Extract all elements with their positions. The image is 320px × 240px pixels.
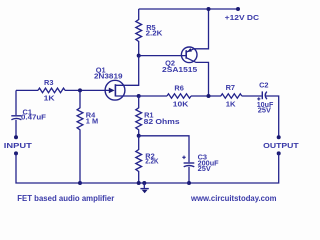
node input terminal <box>14 135 18 139</box>
wire main row to R6 <box>139 95 167 97</box>
transistor Q1 2N3819 JFET <box>94 65 125 100</box>
svg-text:25V: 25V <box>258 106 271 115</box>
capacitor C2 <box>257 81 274 115</box>
node emitter-rail junction <box>207 7 211 11</box>
wire row R6 to R7 <box>191 95 221 97</box>
wire top supply rail <box>139 8 238 10</box>
resistor R1 <box>136 96 180 136</box>
wire input ground drop <box>16 153 80 183</box>
svg-text:2N3819: 2N3819 <box>94 71 123 80</box>
wire Q1 source to node <box>115 95 138 97</box>
wire Q2 base from node <box>139 55 187 57</box>
node +12V terminal dot <box>236 7 240 11</box>
resistor R3 <box>38 78 65 102</box>
resistor R4 <box>77 90 98 183</box>
resistor R6 <box>167 83 191 108</box>
node R2 ground junction <box>137 181 141 185</box>
svg-text:2.2K: 2.2K <box>145 157 159 166</box>
node collector junction <box>207 94 211 98</box>
svg-text:www.circuitstoday.com: www.circuitstoday.com <box>190 194 277 203</box>
svg-text:+12V DC: +12V DC <box>225 13 260 22</box>
wire input segment <box>16 89 38 91</box>
transistor Q2 2SA1515 PNP <box>162 9 209 96</box>
svg-text:FET based audio amplifier: FET based audio amplifier <box>17 194 114 203</box>
node ground stub junction <box>142 181 146 185</box>
node output ground terminal <box>277 151 281 155</box>
capacitor C3 <box>182 153 219 183</box>
resistor R2 <box>136 136 159 183</box>
svg-text:1K: 1K <box>226 99 236 108</box>
resistor R5 <box>136 9 163 56</box>
svg-text:1K: 1K <box>44 93 56 102</box>
node C3 ground junction <box>187 181 191 185</box>
wire bottom ground rail <box>80 182 189 184</box>
node output terminal <box>277 135 281 139</box>
svg-text:25V: 25V <box>198 164 211 173</box>
resistor R7 <box>221 83 242 108</box>
svg-text:0.47uF: 0.47uF <box>21 113 47 122</box>
svg-text:R3: R3 <box>44 78 53 87</box>
svg-text:10K: 10K <box>173 99 189 108</box>
node R1-R2-C3 junction <box>137 134 141 138</box>
wire R7 to C2 <box>242 95 262 97</box>
wire Q1 drain up to node <box>115 56 138 86</box>
wire output ground drop <box>189 153 279 183</box>
capacitor C1 <box>11 90 46 135</box>
svg-text:1 M: 1 M <box>86 117 98 126</box>
svg-text:R7: R7 <box>226 83 235 92</box>
wire junction to C3 <box>139 136 189 163</box>
wire gate segment <box>65 89 109 91</box>
node drain-base junction <box>137 54 141 58</box>
node R4 ground junction <box>78 181 82 185</box>
svg-text:OUTPUT: OUTPUT <box>263 141 299 150</box>
svg-text:82 Ohms: 82 Ohms <box>144 117 180 126</box>
node input ground terminal <box>14 151 18 155</box>
node gate junction <box>78 88 82 92</box>
wire C2 to output <box>266 96 279 136</box>
node source junction <box>137 94 141 98</box>
svg-text:R6: R6 <box>174 83 183 92</box>
svg-text:INPUT: INPUT <box>4 141 33 150</box>
svg-text:2.2K: 2.2K <box>146 28 163 37</box>
ground symbol <box>140 183 148 193</box>
svg-text:C2: C2 <box>259 81 268 90</box>
svg-text:2SA1515: 2SA1515 <box>162 65 197 74</box>
